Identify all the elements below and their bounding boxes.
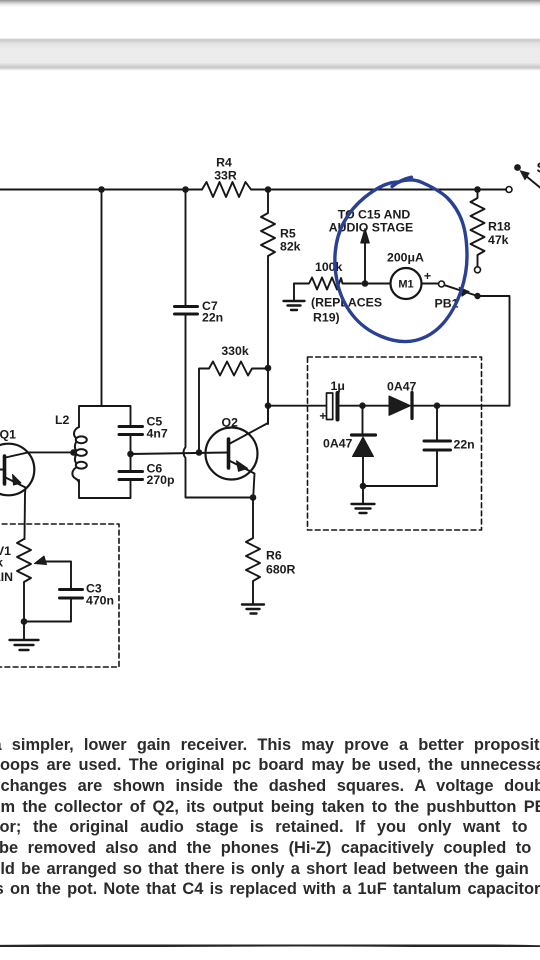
svg-text:Q1: Q1 <box>0 428 16 442</box>
wire Q1 to L2 tap <box>28 451 74 453</box>
transistor Q2 <box>206 406 269 498</box>
schematic text labels <box>0 156 540 608</box>
dashed box left (TV1/C3 changes) <box>0 524 119 667</box>
svg-text:LIN: LIN <box>0 570 13 584</box>
diode D1 0A47 horizontal <box>363 393 438 419</box>
svg-text:47k: 47k <box>488 233 509 247</box>
wire doubler output loop to PB1 <box>437 296 510 406</box>
node junction arrow-100k-M1 <box>362 280 369 287</box>
inductor L2 coil <box>72 427 86 483</box>
capacitor C5 <box>119 427 143 435</box>
paragraph text <box>0 736 540 755</box>
wire doubler bottom rail <box>363 485 437 487</box>
svg-text:R5: R5 <box>280 227 296 241</box>
svg-text:22n: 22n <box>454 438 475 452</box>
inductor L2 tank rectangle <box>79 406 131 498</box>
resistor R5 <box>261 190 275 369</box>
wire output node to doubler <box>268 405 326 407</box>
switch S1 top right <box>506 164 540 192</box>
svg-text:33R: 33R <box>214 169 237 183</box>
switch contact R18 bottom circle <box>475 267 481 273</box>
wire top supply rail <box>0 189 506 191</box>
svg-text:Q2: Q2 <box>222 416 239 430</box>
svg-text:4n7: 4n7 <box>147 427 168 441</box>
arrow to C15 and audio stage <box>361 229 370 284</box>
resistor R4 <box>202 182 251 197</box>
node junction 330k-R5 <box>265 365 272 372</box>
resistor R18 <box>471 190 485 267</box>
svg-text:470n: 470n <box>86 594 114 608</box>
capacitor C7 <box>175 307 198 315</box>
svg-text:R4: R4 <box>216 156 232 170</box>
node junction 330k-base <box>196 449 203 456</box>
diode D2 0A47 vertical <box>352 406 376 486</box>
potentiometer TV1 <box>17 539 31 622</box>
capacitor C3 <box>60 590 83 599</box>
wire L2 column <box>101 190 103 407</box>
meter M1 <box>365 268 438 299</box>
node junction 1u-D2 <box>359 402 366 409</box>
svg-text:680R: 680R <box>266 563 296 577</box>
wire base of Q2 <box>131 453 228 455</box>
svg-text:S1: S1 <box>537 161 540 177</box>
ground under TV1 <box>10 640 39 650</box>
svg-text:5k: 5k <box>0 556 3 570</box>
svg-text:R18: R18 <box>488 220 511 234</box>
svg-text:82k: 82k <box>280 240 301 254</box>
svg-text:200μA: 200μA <box>387 251 424 265</box>
resistor 330k <box>199 362 268 453</box>
node L2 tap <box>70 449 77 456</box>
svg-text:330k: 330k <box>221 344 249 358</box>
wire R5 bottom to collector node <box>267 368 269 424</box>
wire TV1 to ground <box>23 622 25 640</box>
resistor 100k <box>294 278 365 290</box>
bottom rule line <box>0 945 540 947</box>
node junction rail-C7 column <box>182 186 189 193</box>
svg-text:270p: 270p <box>147 473 175 487</box>
node junction TV1-C3 <box>21 618 28 625</box>
potentiometer TV1 wiper arrow <box>44 562 71 590</box>
svg-text:1μ: 1μ <box>331 379 345 393</box>
node junction D1-22n <box>434 402 441 409</box>
pushbutton PB1 <box>439 281 481 299</box>
node junction emitter <box>250 494 257 501</box>
wire C7 column bottom with hop over base wire <box>184 314 254 498</box>
ground under R6 <box>242 605 264 614</box>
node junction rail-L2 column <box>98 186 105 193</box>
capacitor C6 <box>119 472 143 480</box>
svg-text:R19): R19) <box>313 311 340 325</box>
wire C3 bottom <box>24 598 71 622</box>
svg-text:L2: L2 <box>55 413 70 427</box>
node junction collector-output <box>265 402 272 409</box>
svg-text:+: + <box>424 269 431 283</box>
ground under 100k <box>284 301 305 310</box>
svg-text:22n: 22n <box>202 311 223 325</box>
svg-text:R6: R6 <box>266 549 282 563</box>
blue pen annotation loop <box>335 177 467 341</box>
capacitor 22n (doubler) <box>424 441 451 450</box>
node junction rail-R5 <box>265 186 272 193</box>
svg-text:0A47: 0A47 <box>323 437 353 451</box>
wire C7 column top <box>185 190 187 306</box>
resistor R6 <box>246 498 260 604</box>
wire 100k to ground <box>293 284 295 301</box>
ground in doubler <box>352 504 375 513</box>
svg-text:0A47: 0A47 <box>387 380 417 394</box>
wire 22n column <box>436 406 438 486</box>
node junction D2-ground rail <box>360 483 367 490</box>
svg-text:+: + <box>319 409 326 423</box>
node junction C5-C6 <box>127 451 134 458</box>
capacitor 1u electrolytic <box>327 393 360 420</box>
transistor Q1 (cut at left edge) <box>0 444 34 539</box>
svg-text:M1: M1 <box>398 279 413 291</box>
node junction rail-R18 <box>474 186 481 193</box>
dashed box doubler <box>308 357 482 530</box>
svg-text:100k: 100k <box>315 260 343 274</box>
wire D2 to ground <box>362 486 364 503</box>
